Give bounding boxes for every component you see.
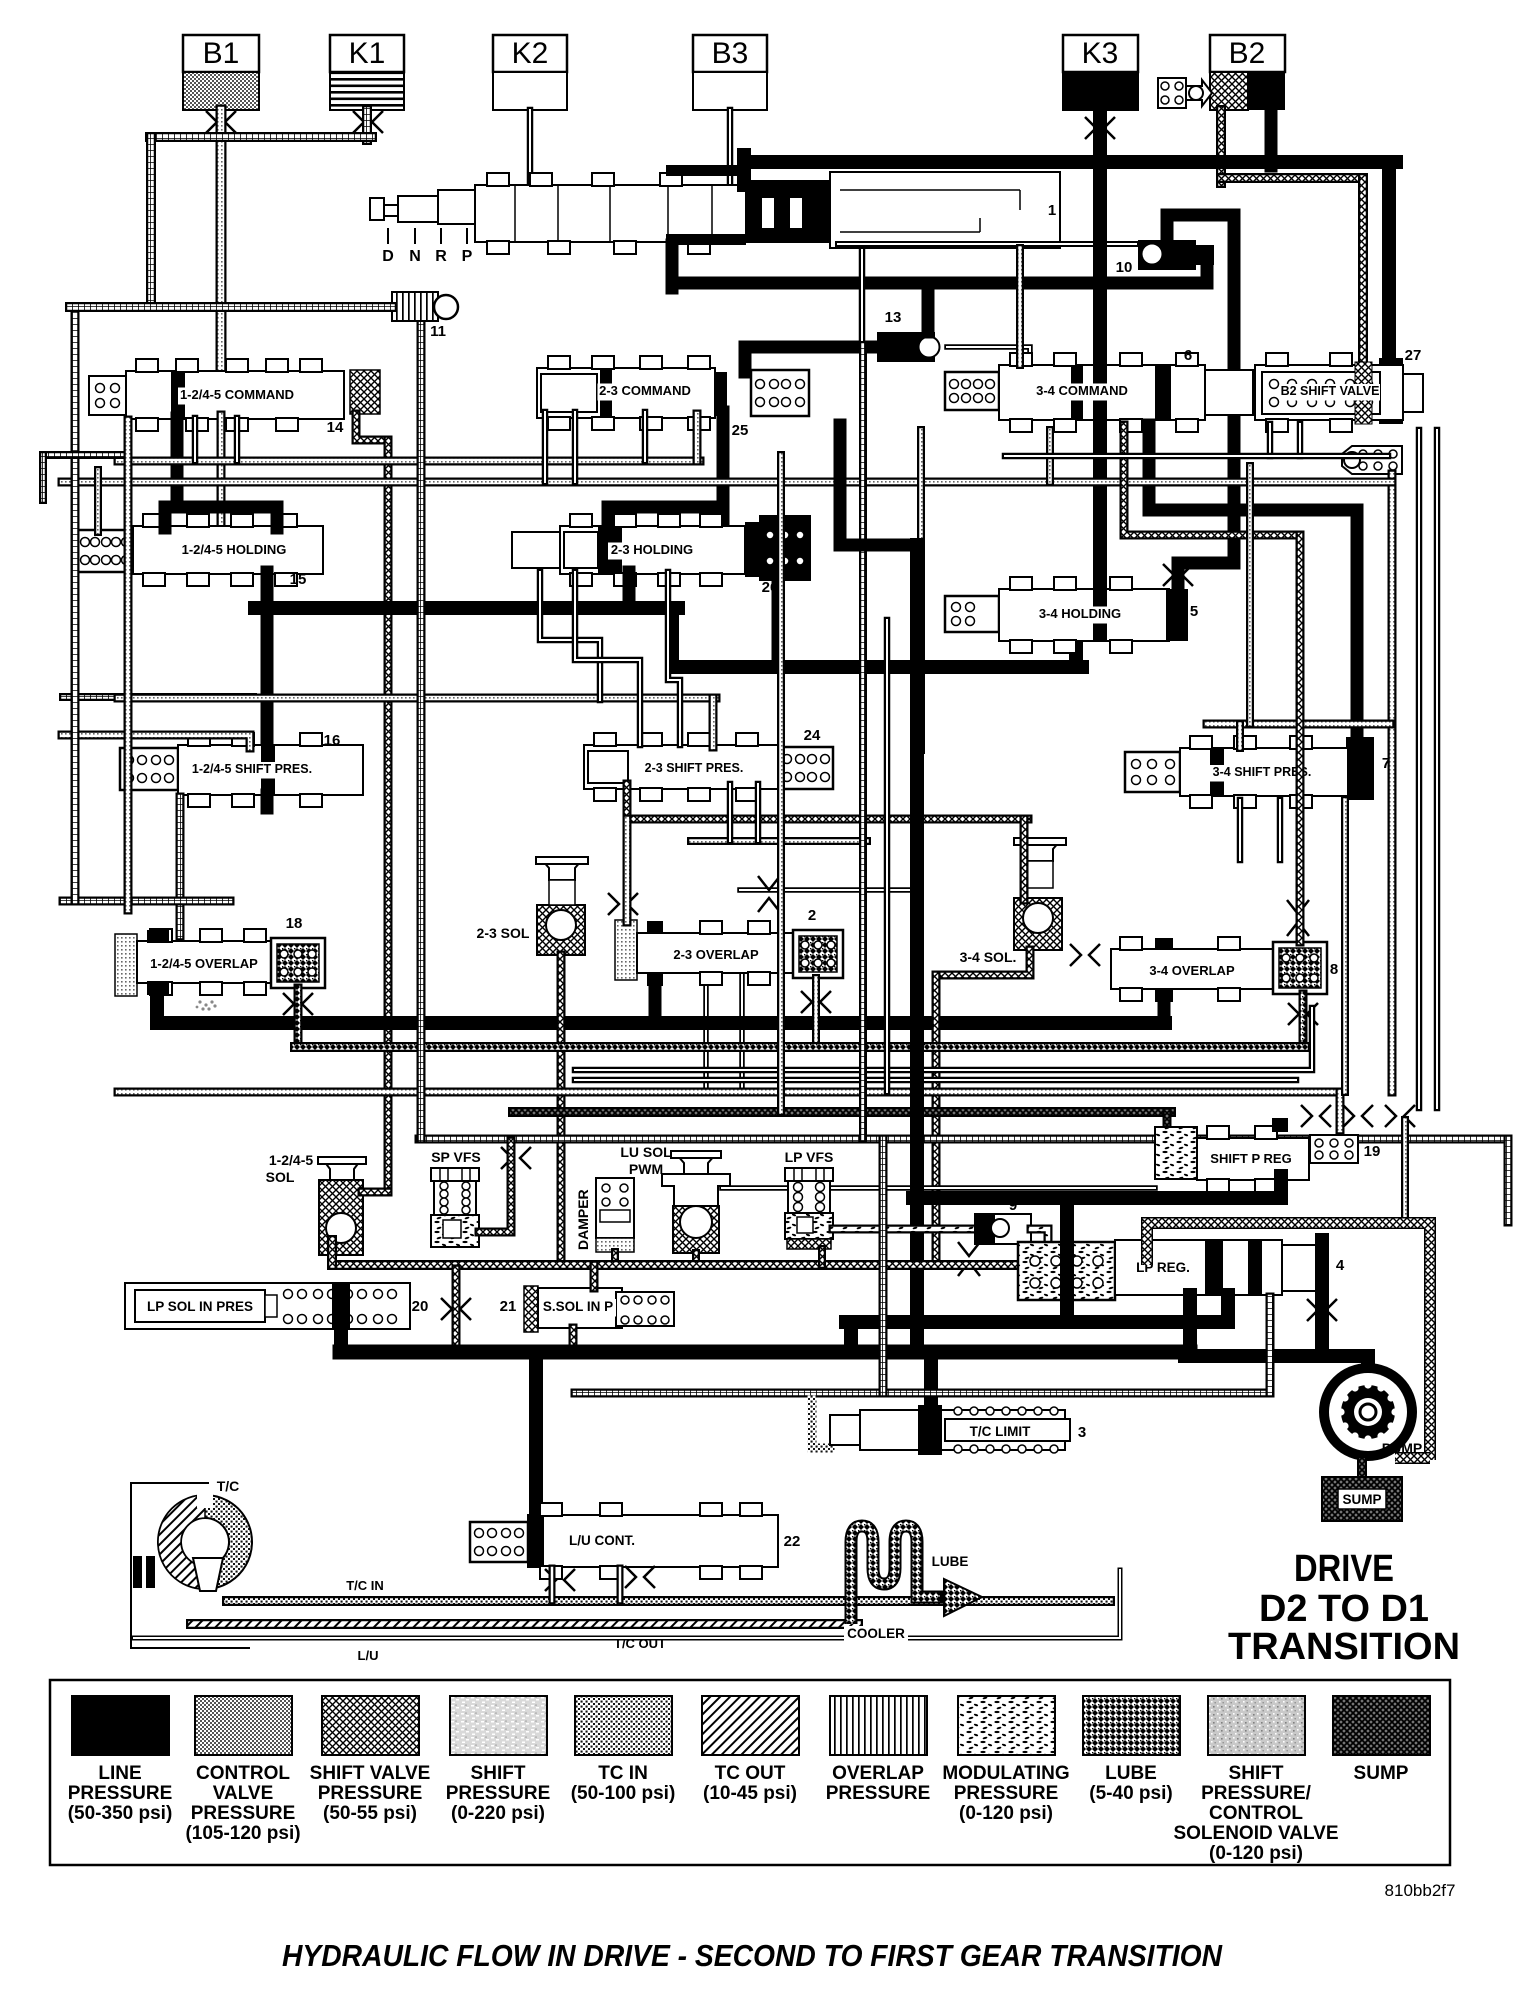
svg-text:14: 14 (327, 419, 344, 436)
svg-text:16: 16 (324, 732, 341, 749)
svg-text:R: R (435, 248, 447, 265)
wire thin channel g (884, 620, 891, 1092)
line ball-13 drop to 2-3 command (739, 347, 752, 372)
check ball 10 (1138, 240, 1214, 270)
svg-text:1-2/4-5 HOLDING: 1-2/4-5 HOLDING (182, 542, 287, 557)
svg-text:N: N (409, 248, 421, 265)
flow chevrons near 3-4 overlap (1287, 900, 1309, 936)
orifice under accumulator 18 (283, 993, 313, 1015)
line drop to 3-4 shift pres cap (1351, 510, 1364, 745)
line bottom header upper link (844, 1322, 858, 1352)
solenoid LU SOL PWM (662, 1151, 730, 1253)
manual valve spool section (475, 173, 746, 254)
wire dotted stub x1240 (1236, 724, 1244, 748)
svg-text:SHIFT P REG: SHIFT P REG (1210, 1151, 1291, 1166)
wire dotted corridor right y724 (1207, 720, 1390, 729)
svg-text:PWM: PWM (629, 1161, 663, 1177)
wire crosshatch from 3-4 command (1124, 425, 1300, 535)
pump gear (1319, 1363, 1417, 1461)
svg-text:SHIFT VALVEPRESSURE(50-55 psi): SHIFT VALVEPRESSURE(50-55 psi) (310, 1763, 431, 1824)
accumulator 8 (1273, 942, 1327, 994)
label COOLER (844, 1626, 908, 1644)
line command-holding bridge (165, 501, 277, 514)
svg-text:B2: B2 (1229, 37, 1266, 70)
wire B2 hatch drop (1216, 110, 1226, 183)
svg-text:SUMP: SUMP (1342, 1492, 1381, 1507)
check manifold below B2 shift valve (1342, 446, 1402, 474)
cooler serpentine (851, 1526, 982, 1624)
wire dotted corridor drop to 2-3 command (693, 414, 702, 461)
solenoid 1-2/4-5 SOL (318, 1157, 366, 1255)
wire thin channel j (1237, 800, 1244, 860)
retainer box 24 (779, 747, 833, 789)
hatch pump bottom link (1395, 1452, 1430, 1464)
svg-text:9: 9 (1009, 1197, 1017, 1214)
line holding down to shift pres (261, 572, 274, 748)
solenoid SP VFS (431, 1168, 479, 1247)
valve 2-3 OVERLAP (item 2) (615, 920, 797, 986)
valve 2-3 HOLDING (item 26) (512, 514, 745, 586)
wire T/C OUT line (191, 1619, 858, 1629)
wire L/U line (134, 1570, 1120, 1638)
svg-text:3-4 OVERLAP: 3-4 OVERLAP (1149, 963, 1235, 978)
wire dotted trunk from B2 shift valve down (1388, 474, 1397, 1092)
clutch K3 fill (line pressure) (1063, 72, 1138, 110)
wire staircase a (540, 572, 600, 700)
svg-text:COOLER: COOLER (847, 1626, 905, 1641)
sump box (1322, 1477, 1402, 1521)
wire 2-3 sol drop (hatch) (557, 955, 566, 1263)
wire tick nest v (39, 455, 47, 500)
B2 shift valve right cap (1379, 358, 1403, 424)
svg-text:DRIVE: DRIVE (1294, 1548, 1394, 1590)
svg-text:HYDRAULIC FLOW IN DRIVE - SECO: HYDRAULIC FLOW IN DRIVE - SECOND TO FIRS… (282, 1938, 1223, 1973)
wire s.sol top (hatch) (590, 1265, 599, 1288)
line shift p reg header (913, 1191, 1281, 1205)
svg-text:SP VFS: SP VFS (431, 1149, 481, 1165)
svg-text:27: 27 (1405, 347, 1422, 364)
wire thin channel a (542, 412, 549, 482)
valve LP SOL IN PRES (item 20) (125, 1283, 410, 1329)
svg-text:1-2/4-5 SHIFT PRES.: 1-2/4-5 SHIFT PRES. (192, 762, 312, 776)
svg-text:3-4 HOLDING: 3-4 HOLDING (1039, 606, 1121, 621)
valve 3-4 SHIFT PRES (item 7) (1125, 736, 1348, 808)
orifice below K1 (353, 111, 383, 133)
svg-text:2-3 HOLDING: 2-3 HOLDING (611, 542, 693, 557)
shift pressure control solenoid swatch (1208, 1696, 1305, 1755)
wire dotted x1345 drop (1341, 800, 1349, 1092)
control valve pressure swatch (195, 1696, 292, 1755)
modulating pressure swatch (958, 1696, 1055, 1755)
label LUBE (928, 1554, 972, 1572)
line main lower header left (255, 601, 678, 615)
clutch B2 label box (1210, 35, 1285, 72)
orifice under accumulator 2 (801, 991, 831, 1013)
svg-text:3-4 COMMAND: 3-4 COMMAND (1036, 383, 1128, 398)
sump swatch (1333, 1696, 1430, 1755)
line pressure header left drop to manual valve (737, 155, 751, 185)
line riser into 3-4 holding (1069, 643, 1083, 667)
line ball-13 header (745, 341, 879, 354)
svg-text:2: 2 (808, 907, 816, 924)
label B2 SHIFT VALVE (1280, 384, 1380, 401)
valve T/C LIMIT (item 3) (830, 1405, 1070, 1455)
wire lube riser accumulator 8 (1299, 994, 1308, 1047)
svg-text:24: 24 (804, 727, 821, 744)
wire damper drop (611, 1252, 619, 1263)
wire 1-2/4-5 sol elbow (hatch) (362, 1188, 388, 1197)
wire crosshatch down to accumulator 8 (1296, 535, 1305, 942)
check valve beside B2 (1158, 78, 1212, 108)
orifice near 19 b (1343, 1105, 1373, 1127)
wire below 2-3 overlap b (739, 975, 745, 1092)
label T/C OUT (609, 1637, 671, 1654)
label S.SOL IN P (540, 1299, 616, 1317)
valve 2-3 SHIFT PRES (item 24) (584, 733, 784, 801)
svg-text:K2: K2 (512, 37, 549, 70)
line bottom header upper (846, 1315, 1228, 1329)
svg-text:20: 20 (412, 1298, 429, 1315)
wire staircase b (575, 572, 640, 745)
shift pressure swatch (450, 1696, 547, 1755)
retainer box 25 (715, 370, 809, 416)
clutch K1 label box (330, 35, 404, 72)
orifice 20 (441, 1298, 471, 1320)
wire thin channel from LU SOL (722, 1185, 1155, 1191)
wire staircase c (668, 572, 680, 745)
label 3-4 COMMAND (1035, 384, 1130, 401)
svg-text:D: D (382, 248, 394, 265)
label 2-3 HOLDING (608, 543, 696, 560)
label SHIFT P REG (1208, 1152, 1294, 1169)
svg-text:T/C: T/C (217, 1478, 240, 1494)
wire thin corridor y456 right (1005, 453, 1388, 460)
valve B2 SHIFT VALVE (item 27) (1255, 353, 1423, 432)
wire tick loop top y697 (63, 693, 253, 701)
spray nozzle under overlap (196, 1000, 217, 1010)
wire dotted channel x1050 (1046, 430, 1054, 482)
svg-text:2-3 SOL: 2-3 SOL (477, 925, 530, 941)
orifice below K3 (1085, 117, 1115, 139)
label 1-2/4-5 COMMAND (178, 388, 296, 405)
svg-text:P: P (462, 248, 473, 265)
line riser lp sol cap (334, 1326, 348, 1352)
wire hatch drop to 3-4 sol (1020, 819, 1029, 900)
line bottom header lower (340, 1345, 1190, 1360)
line 2-3 holding down (623, 572, 636, 608)
line pressure ball-10 header (672, 277, 1207, 290)
svg-text:3-4 SOL.: 3-4 SOL. (960, 949, 1017, 965)
svg-text:TC OUT(10-45 psi): TC OUT(10-45 psi) (703, 1763, 797, 1804)
svg-text:18: 18 (286, 915, 303, 932)
wire tick trunk x863 (859, 345, 867, 1139)
valve LP REG (item 4) (1115, 1240, 1326, 1295)
manual valve dark land (666, 165, 830, 245)
wire sump drop to shift p reg (1163, 1112, 1172, 1130)
valve 1-2/4-5 OVERLAP (item 18) (115, 929, 271, 996)
wire thin channel e (234, 418, 241, 461)
clutch B1 label box (183, 35, 259, 72)
svg-text:TRANSITION: TRANSITION (1228, 1626, 1460, 1668)
line pump top stub (1361, 1356, 1375, 1372)
wire lu sol drop (692, 1253, 700, 1263)
damper body (596, 1178, 634, 1252)
accumulator 18 (271, 938, 325, 988)
svg-text:LUBE: LUBE (932, 1554, 969, 1569)
check ball 9 (975, 1214, 1031, 1244)
line 2-3 command to trunk elbow (840, 425, 917, 545)
wire s.sol bottom (hatch) (569, 1328, 578, 1352)
wire tc in risers (549, 1568, 556, 1601)
valve 3-4 COMMAND (item 6) (945, 353, 1253, 432)
line pressure swatch (72, 1696, 169, 1755)
svg-text:T/C LIMIT: T/C LIMIT (970, 1424, 1031, 1439)
wire solenoid supply header (hatch) (332, 1260, 1147, 1270)
line ball-10 upper loop (1167, 215, 1234, 563)
shift valve pressure swatch (322, 1696, 419, 1755)
line lp reg bottom left drop (1183, 1295, 1197, 1356)
wire tick trunk x421 (417, 319, 426, 1139)
svg-text:4: 4 (1336, 1257, 1345, 1274)
line drop into 2-3 holding (602, 507, 615, 530)
wire hatch elbow from command (356, 414, 388, 440)
wire right edge thin 1 (1416, 430, 1423, 1108)
svg-text:2-3 OVERLAP: 2-3 OVERLAP (673, 947, 759, 962)
line manual valve to ball 10 riser (666, 245, 679, 288)
wire 3-4 sol elbow (hatch) (936, 950, 1030, 975)
svg-text:1-2/4-5: 1-2/4-5 (269, 1152, 314, 1168)
valve 3-4 OVERLAP (item 8) (1111, 937, 1273, 1002)
manual valve body (item 1) (830, 172, 1060, 248)
wire dotted nest to holding (94, 470, 102, 532)
legend frame (50, 1680, 1450, 1865)
svg-text:10: 10 (1116, 259, 1133, 276)
orifice below l/u cont a (545, 1569, 575, 1591)
wire long dotted corridor y482 (62, 478, 1392, 487)
tc input shaft (133, 1556, 155, 1588)
wire thin channel b (572, 412, 579, 482)
lube swatch (1083, 1696, 1180, 1755)
svg-text:LP VFS: LP VFS (785, 1149, 834, 1165)
wire dotted drop to 2-3 shift pres (709, 698, 718, 747)
3-4 shift pres right cap (item 7) (1346, 737, 1374, 800)
line tc limit drop (924, 1352, 938, 1412)
overlap pressure swatch (830, 1696, 927, 1755)
wire pump to sump (1357, 1461, 1367, 1480)
spring chamber LP REG (1018, 1242, 1115, 1300)
l/u cont inner trunk (529, 1515, 544, 1567)
wire tick band right drop (1504, 1139, 1513, 1222)
svg-text:B3: B3 (712, 37, 749, 70)
svg-text:6: 6 (1184, 347, 1192, 364)
solenoid 3-4 SOL (1014, 838, 1066, 950)
svg-text:SOL: SOL (266, 1169, 295, 1185)
orifice below B1 (206, 111, 236, 133)
clutch B1 fill (control pressure) (183, 72, 259, 110)
wire lp vfs hatch drop (818, 1249, 826, 1265)
clutch K2 box (493, 35, 567, 72)
wire thin channel d (192, 418, 199, 461)
wire dotted trunk x781 (777, 455, 785, 1112)
wire hatch trunk to 1-2/4-5 sol (384, 440, 393, 1186)
retainer box 26 (745, 515, 811, 581)
line stub below shift pres (261, 795, 274, 808)
wire K2 down to manual valve (527, 110, 534, 185)
wire thin channel i (755, 784, 762, 841)
clutch B2 fill left (hatch) (1210, 72, 1248, 110)
line 3-4 overlap down to header (1158, 996, 1171, 1023)
orifice below l/u cont b (625, 1566, 655, 1588)
label 1-2/4-5 HOLDING (178, 543, 290, 560)
label LP SOL IN PRES (147, 1299, 253, 1317)
hatch elbow left of T/C LIMIT (812, 1400, 830, 1448)
label 3-4 HOLDING (1036, 607, 1124, 624)
svg-text:5: 5 (1190, 603, 1198, 620)
wire left drop from manifold (tick) (146, 137, 156, 307)
clutch K1 fill (horizontal stripes) (330, 72, 404, 110)
svg-text:LU SOL: LU SOL (620, 1144, 672, 1160)
wire sump corridor y1112 (513, 1107, 1171, 1117)
check ball 13 (877, 332, 940, 362)
clutch K3 label box (1063, 35, 1138, 72)
clutch B2 fill right (line pressure) (1248, 72, 1285, 110)
wire b2 shift valve stub a (1267, 424, 1274, 456)
wire dotted corridor upper-left (62, 735, 250, 748)
wire modulating line LP VFS to ball 9 (833, 1225, 975, 1234)
line lp reg bottom drop 2 (1221, 1295, 1235, 1318)
wire T/C IN line (227, 1596, 1110, 1606)
svg-text:8: 8 (1330, 961, 1338, 978)
wire dotted vertical x1250 (1246, 466, 1254, 724)
wire B2 hatch across to B2 shift valve (1221, 173, 1363, 183)
torque converter torus (158, 1487, 252, 1591)
torque converter enclosure (131, 1483, 250, 1648)
valve L/U CONT (item 22) (470, 1503, 778, 1579)
orifice near 19 a (1301, 1105, 1331, 1127)
solenoid 2-3 SOL (536, 857, 588, 955)
wire long dotted corridor y1092 (118, 1088, 1340, 1097)
label 3-4 OVERLAP (1148, 964, 1236, 981)
clutch B3 box (693, 35, 767, 72)
svg-text:T/C IN: T/C IN (346, 1578, 384, 1593)
selector position ticks D N R P (388, 228, 467, 244)
svg-text:19: 19 (1364, 1143, 1381, 1160)
svg-text:K3: K3 (1082, 37, 1119, 70)
wire B1 dotted below command (217, 415, 226, 528)
label 3-4 SHIFT PRES. (1210, 765, 1314, 782)
svg-text:1: 1 (1048, 202, 1056, 219)
valve 1-2/4-5 HOLDING (item 15) (78, 514, 323, 586)
wire tick riser to LP REG (1266, 1297, 1275, 1393)
svg-text:OVERLAPPRESSURE: OVERLAPPRESSURE (826, 1763, 931, 1804)
label LP REG. (1134, 1260, 1192, 1278)
wire below 2-3 overlap a (703, 975, 709, 1092)
wire lube riser accumulator 2 (812, 978, 820, 1047)
wire dotted drop from orifice (1401, 1120, 1409, 1220)
valve 2-3 COMMAND (item 25) (537, 356, 715, 430)
orifice on item4 line (1307, 1299, 1337, 1321)
wire tick loop left x75 (71, 307, 80, 901)
wire thin channel to ball 10 (838, 241, 1136, 247)
svg-text:S.SOL IN P: S.SOL IN P (543, 1299, 613, 1314)
svg-text:B1: B1 (203, 37, 240, 70)
svg-text:2-3 SHIFT PRES.: 2-3 SHIFT PRES. (645, 761, 744, 775)
svg-text:CONTROLVALVEPRESSURE(105-120 p: CONTROLVALVEPRESSURE(105-120 psi) (185, 1763, 300, 1844)
line pressure K3 trunk (1093, 110, 1107, 592)
line 26 down to header (772, 577, 785, 667)
wire dotted corridor y698 (118, 694, 716, 703)
wire right edge thin 2 (1434, 430, 1441, 1108)
flow chevrons below ball 9 (958, 1242, 980, 1276)
svg-text:D2 TO D1: D2 TO D1 (1259, 1588, 1429, 1630)
valve 3-4 HOLDING (item 5) (945, 577, 1169, 653)
line header step down (665, 608, 679, 667)
wire dotted channel manual valve down (1016, 248, 1024, 365)
svg-text:810bb2f7: 810bb2f7 (1385, 1881, 1456, 1900)
tc in swatch (575, 1696, 672, 1755)
svg-text:L/U CONT.: L/U CONT. (569, 1533, 635, 1548)
line pressure center trunk (910, 545, 924, 1352)
label 1-2/4-5 OVERLAP (150, 957, 258, 974)
wire B2 hatch down to B2 shift valve (1358, 178, 1368, 370)
wire thin channel c (642, 412, 649, 461)
wire thin channel h (727, 784, 734, 841)
wire K1-B1 manifold (tick) (150, 132, 372, 142)
valve S.SOL IN P (item 21) (524, 1286, 674, 1332)
wire hatch corridor y819 (627, 784, 1028, 819)
wire tc in riser b (617, 1568, 624, 1601)
wire thin channel f (859, 250, 866, 348)
wire dotted left trunk x128 (124, 420, 133, 910)
wire shift pres to overlap (tick) (176, 797, 185, 936)
wire dotted corridor y841 (691, 837, 867, 845)
hatch loop around pump (1147, 1223, 1430, 1460)
wire thin corridor y1078 (575, 1077, 1296, 1084)
svg-text:1-2/4-5 COMMAND: 1-2/4-5 COMMAND (180, 387, 294, 402)
wire thin y890 to trunk (740, 887, 917, 893)
tc out swatch (702, 1696, 799, 1755)
wire supply riser left (hatch) (327, 1240, 337, 1265)
svg-text:B2 SHIFT VALVE: B2 SHIFT VALVE (1281, 384, 1380, 398)
svg-text:22: 22 (784, 1533, 801, 1550)
label 2-3 SHIFT PRES. (642, 761, 746, 778)
line command to holding left (171, 418, 184, 507)
wire thin channel k (1277, 800, 1284, 860)
wire lube riser from accumulator 18 (294, 988, 303, 1047)
wire dotted drop to shift p reg (1336, 1092, 1345, 1130)
line into holding left (159, 507, 172, 528)
line into holding right (271, 507, 284, 528)
wire tick line y1393 (575, 1389, 1270, 1398)
line 2-3 command down (717, 412, 730, 530)
line pressure top header (744, 155, 1396, 169)
line 3-4 command down-right loop (1149, 425, 1357, 510)
line shift-p-reg vert to bottom (1060, 1198, 1074, 1318)
orifice above 3-4 holding (1163, 564, 1193, 586)
label L/U CONT. (567, 1533, 637, 1551)
valve 1-2/4-5 SHIFT PRES (item 16) (120, 733, 363, 807)
line ball-10 drop (1201, 252, 1214, 283)
svg-text:2-3 COMMAND: 2-3 COMMAND (599, 383, 691, 398)
svg-text:3: 3 (1078, 1424, 1086, 1441)
orifice right of SP VFS (501, 1147, 531, 1169)
label 2-3 OVERLAP (672, 948, 760, 965)
wire tick header y307 (70, 302, 392, 312)
svg-text:SUMP: SUMP (1354, 1763, 1409, 1784)
line main lower header right (672, 660, 1082, 674)
orifice left of 3-4 overlap (1070, 944, 1100, 966)
accumulator 2 (793, 930, 843, 978)
